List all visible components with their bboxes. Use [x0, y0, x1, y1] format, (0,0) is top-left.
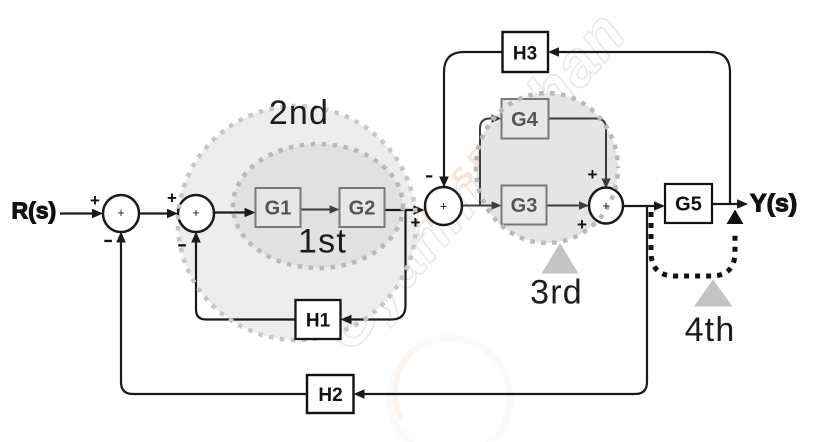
ellipse 1st fill	[233, 144, 403, 268]
arrow into S4 left	[579, 201, 589, 210]
arrow into S1 bottom	[116, 232, 126, 243]
wire H1 out to S2	[196, 239, 296, 320]
arrow into S3 top	[439, 177, 449, 188]
block G2	[340, 188, 385, 227]
svg-text:G5: G5	[675, 194, 702, 216]
arrow into H3	[548, 47, 559, 57]
dotted ellipse 2nd stroke	[178, 106, 416, 340]
arrow into G4	[492, 114, 502, 123]
svg-text:+: +	[411, 213, 421, 232]
watermark	[309, 0, 640, 442]
summing junction S4	[589, 188, 623, 224]
svg-text:+: +	[167, 189, 177, 208]
wire H1 drop	[348, 210, 406, 320]
svg-text:4th: 4th	[685, 311, 736, 349]
svg-text:R(s): R(s)	[12, 198, 57, 224]
block H3	[503, 32, 549, 72]
arrowheads	[92, 47, 748, 399]
wire H2 out to S1	[121, 239, 307, 394]
wire G3 to S4	[547, 205, 583, 207]
svg-text:G2: G2	[349, 198, 376, 220]
block G1	[256, 188, 301, 227]
triangle 4th	[694, 280, 733, 307]
sign minus S3	[426, 175, 432, 177]
ellipse 3rd fill	[476, 93, 618, 243]
arrow into H2	[354, 389, 365, 399]
wire H3 riser	[556, 52, 730, 204]
svg-text:G4: G4	[511, 109, 539, 131]
svg-text:G3: G3	[511, 195, 538, 217]
svg-text:+: +	[117, 206, 124, 220]
arrow into G2	[330, 205, 340, 214]
svg-text:Y(s): Y(s)	[750, 190, 797, 218]
arrow into Y(s)	[737, 199, 748, 209]
dotted ellipse 1st stroke	[233, 144, 403, 268]
block H2	[307, 375, 354, 413]
wire G1 to G2	[301, 209, 334, 211]
svg-text:3rd: 3rd	[530, 274, 583, 312]
arrow into G3	[492, 201, 502, 210]
arrow into S3	[414, 205, 425, 215]
svg-text:+: +	[588, 165, 598, 184]
wire S2 to G1	[214, 211, 249, 213]
svg-text:+: +	[602, 199, 609, 213]
svg-text:H1: H1	[306, 311, 331, 332]
wire G5 to Y(s)	[710, 203, 742, 205]
wire S4 to G5	[623, 205, 658, 207]
svg-text:+: +	[90, 191, 100, 210]
dotted curve 4th	[651, 212, 735, 276]
sign minus S2	[178, 244, 186, 246]
wire R(s) to S1	[60, 52, 741, 394]
summing junction S3	[425, 187, 462, 225]
triangle 3rd	[542, 243, 579, 274]
wire H2 drop	[361, 206, 647, 394]
summing junction S1	[103, 195, 139, 232]
arrow into S2 bottom	[191, 232, 201, 243]
svg-text:H3: H3	[513, 44, 537, 65]
wire G4 branch up	[480, 119, 495, 206]
sign minus S1	[104, 240, 112, 242]
svg-text:H2: H2	[318, 385, 342, 406]
arrowhead 4th curve	[727, 210, 744, 225]
dotted ellipse 3rd stroke	[476, 93, 618, 243]
block H1	[296, 300, 341, 339]
arrow into S1	[92, 209, 103, 219]
block G4	[502, 99, 549, 139]
wire S1 to S2	[139, 212, 171, 214]
arrow into S4 top	[601, 179, 610, 189]
ellipse 2nd fill	[178, 106, 416, 340]
arrow into G1	[245, 208, 256, 218]
block G3	[502, 186, 547, 225]
wire G2 to S3	[385, 209, 418, 211]
svg-text:+: +	[440, 199, 447, 213]
wire S3 to G3	[462, 205, 495, 207]
svg-text:G1: G1	[265, 198, 292, 220]
arrow into G5	[654, 201, 665, 211]
svg-text:1st: 1st	[298, 223, 347, 261]
arrow into H1	[341, 315, 352, 325]
block G5	[665, 184, 712, 223]
svg-text:+: +	[192, 206, 199, 220]
arrow into S2	[167, 209, 178, 219]
summing junction S2	[178, 195, 214, 232]
svg-text:+: +	[577, 215, 587, 234]
svg-text:2nd: 2nd	[269, 94, 329, 132]
wire G4 to S4	[549, 119, 607, 182]
wire H3 out to S3	[444, 52, 503, 180]
